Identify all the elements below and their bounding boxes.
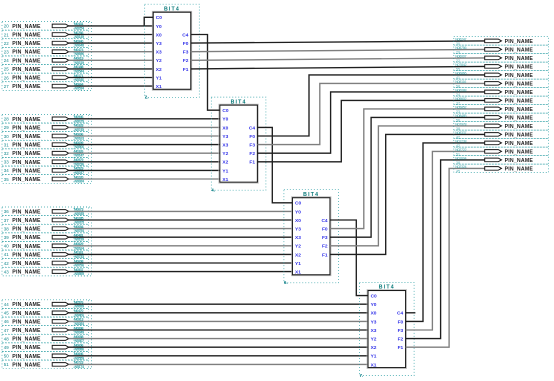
net label on wire of group 2 row 8 bbox=[74, 175, 85, 183]
svg-text:N02722: N02722 bbox=[455, 148, 466, 152]
svg-text:34: 34 bbox=[4, 168, 9, 173]
svg-text:PIN_NAME: PIN_NAME bbox=[12, 209, 41, 215]
svg-text:C0: C0 bbox=[222, 108, 228, 114]
net label on wire of group 4 row 7 bbox=[74, 352, 84, 360]
svg-text:F2: F2 bbox=[322, 244, 328, 250]
svg-text:PIN_NAME: PIN_NAME bbox=[12, 235, 41, 241]
svg-text:F1: F1 bbox=[322, 252, 328, 258]
svg-text:PIN_NAME: PIN_NAME bbox=[505, 73, 534, 79]
wire group 3 row 5 to U3 Y2 bbox=[68, 245, 292, 247]
output pin port PIN_NAME (bit 12) bbox=[454, 139, 549, 148]
input pin port PIN_NAME (group 3 row 2, pin 37) bbox=[2, 216, 89, 225]
wire U3.F1 to output pin 11 bbox=[330, 134, 485, 254]
svg-text:N06088: N06088 bbox=[455, 88, 466, 92]
wire group 1 row 6 to U1 X2 bbox=[68, 68, 153, 70]
wire U3.F2 to output pin 10 bbox=[330, 126, 485, 246]
selection box around net labels of group 2 bbox=[74, 114, 92, 183]
svg-text:25: 25 bbox=[4, 67, 9, 72]
wire group 1 row 4 to U1 X3 bbox=[68, 51, 153, 53]
wire group 1 row 3 to U1 Y3 bbox=[68, 42, 153, 44]
svg-text:BIT4: BIT4 bbox=[379, 285, 395, 291]
wire carry U2.C4 to U3.C0 bbox=[257, 127, 292, 202]
wire group 1 row 8 to U1 X1 bbox=[68, 85, 153, 87]
svg-text:N08337: N08337 bbox=[455, 131, 466, 135]
svg-text:27: 27 bbox=[4, 84, 9, 89]
svg-text:48: 48 bbox=[4, 336, 9, 341]
svg-text:X1: X1 bbox=[156, 84, 162, 90]
wire group 4 row 2 to U4 X0 bbox=[68, 312, 368, 314]
wire U1.F1 to output pin 3 bbox=[191, 66, 485, 69]
net label on wire of group 4 row 2 bbox=[74, 309, 84, 317]
input pin port PIN_NAME (group 2 row 7, pin 34) bbox=[2, 166, 89, 175]
svg-text:20: 20 bbox=[4, 24, 9, 29]
net label on wire of group 1 row 2 bbox=[74, 31, 84, 39]
input pin port PIN_NAME (group 1 row 7, pin 26) bbox=[2, 73, 89, 82]
svg-text:PIN_NAME: PIN_NAME bbox=[505, 132, 534, 138]
svg-text:F3: F3 bbox=[249, 143, 255, 149]
wire U4.F0 to output pin 12 bbox=[406, 143, 485, 322]
net label on wire of group 3 row 8 bbox=[74, 268, 84, 276]
net label on wire of output pin 11 bbox=[455, 131, 466, 140]
svg-text:X0: X0 bbox=[222, 125, 228, 131]
svg-text:43: 43 bbox=[4, 269, 9, 274]
wire group 3 row 7 to U3 Y1 bbox=[68, 262, 292, 264]
svg-text:Y0: Y0 bbox=[156, 24, 162, 30]
svg-text:PIN_NAME: PIN_NAME bbox=[505, 158, 534, 164]
svg-text:51: 51 bbox=[4, 362, 9, 367]
svg-text:PIN_NAME: PIN_NAME bbox=[12, 67, 41, 73]
net label on wire of group 3 row 5 bbox=[74, 242, 85, 250]
svg-text:PIN_NAME: PIN_NAME bbox=[505, 115, 534, 121]
svg-text:X3: X3 bbox=[156, 50, 162, 56]
svg-text:X1: X1 bbox=[295, 270, 301, 276]
svg-text:7.: 7. bbox=[360, 373, 364, 378]
svg-text:F2: F2 bbox=[183, 58, 189, 64]
svg-text:39: 39 bbox=[4, 235, 9, 240]
input pin port PIN_NAME (group 3 row 4, pin 39) bbox=[2, 233, 89, 242]
output pin port PIN_NAME (bit 2) bbox=[454, 54, 549, 63]
wire group 1 row 2 to U1 X0 bbox=[68, 34, 153, 36]
net label on wire of output pin 1 bbox=[455, 46, 466, 55]
net label on wire of output pin 5 bbox=[455, 80, 466, 89]
net label on wire of group 2 row 2 bbox=[74, 124, 84, 132]
svg-text:47: 47 bbox=[4, 328, 9, 333]
svg-text:X2: X2 bbox=[156, 67, 162, 73]
wire U4.F2 to output pin 14 bbox=[406, 160, 485, 339]
svg-text:49: 49 bbox=[4, 345, 9, 350]
input pin port PIN_NAME (group 2 row 8, pin 35) bbox=[2, 175, 89, 184]
wire U4.F3 to output pin 13 bbox=[406, 151, 485, 330]
svg-text:PIN_NAME: PIN_NAME bbox=[12, 50, 41, 56]
net label on wire of group 4 row 1 bbox=[74, 301, 84, 309]
svg-text:Y2: Y2 bbox=[371, 337, 377, 343]
svg-text:N06866: N06866 bbox=[455, 71, 466, 75]
svg-text:PIN_NAME: PIN_NAME bbox=[505, 90, 534, 96]
svg-text:X1: X1 bbox=[371, 362, 377, 368]
output pin port PIN_NAME (bit 3) bbox=[454, 62, 549, 71]
svg-text:F0: F0 bbox=[398, 319, 404, 325]
wire group 2 row 5 to U2 Y2 bbox=[68, 152, 219, 154]
svg-text:PIN_NAME: PIN_NAME bbox=[12, 362, 41, 368]
svg-text:45: 45 bbox=[456, 169, 460, 173]
svg-text:PIN_NAME: PIN_NAME bbox=[12, 76, 41, 82]
svg-text:N01604: N01604 bbox=[455, 156, 466, 160]
input pin port PIN_NAME (group 3 row 8, pin 43) bbox=[2, 267, 89, 276]
input pin port PIN_NAME (group 2 row 1, pin 28) bbox=[2, 114, 89, 123]
svg-text:30: 30 bbox=[4, 134, 9, 139]
svg-text:BIT4: BIT4 bbox=[164, 6, 180, 12]
output pin port PIN_NAME (bit 1) bbox=[454, 45, 549, 54]
wire group 2 row 8 to U2 X1 bbox=[68, 178, 219, 180]
svg-text:N02324: N02324 bbox=[455, 165, 466, 169]
svg-text:BIT4: BIT4 bbox=[303, 192, 319, 198]
output pin port PIN_NAME (bit 9) bbox=[454, 113, 549, 122]
net label on wire of group 3 row 3 bbox=[74, 225, 85, 233]
wire group 2 row 2 to U2 X0 bbox=[68, 126, 219, 128]
svg-text:N05852: N05852 bbox=[455, 105, 466, 109]
svg-text:X2: X2 bbox=[222, 160, 228, 166]
net label on wire of group 3 row 6 bbox=[74, 251, 84, 259]
svg-text:36: 36 bbox=[4, 209, 9, 214]
wire U2.F1 to output pin 7 bbox=[257, 100, 485, 161]
svg-text:X0: X0 bbox=[295, 218, 301, 224]
svg-text:PIN_NAME: PIN_NAME bbox=[12, 218, 41, 224]
svg-text:PIN_NAME: PIN_NAME bbox=[12, 58, 41, 64]
net label on wire of group 4 row 6 bbox=[74, 344, 84, 352]
svg-text:PIN_NAME: PIN_NAME bbox=[505, 39, 534, 45]
input pin port PIN_NAME (group 3 row 5, pin 40) bbox=[2, 241, 89, 250]
wire group 3 row 1 to U3 Y0 bbox=[68, 210, 292, 212]
wire group 4 row 7 to U4 Y1 bbox=[68, 355, 368, 357]
svg-text:44: 44 bbox=[4, 302, 9, 307]
net label on wire of output pin 0 bbox=[455, 37, 466, 46]
svg-text:C0: C0 bbox=[156, 15, 162, 21]
svg-text:6.: 6. bbox=[284, 280, 288, 285]
net label on wire of output pin 7 bbox=[455, 97, 466, 106]
svg-text:2.: 2. bbox=[145, 95, 149, 100]
wire group 4 row 8 to U4 X1 bbox=[68, 363, 368, 365]
net label on wire of group 2 row 4 bbox=[74, 141, 84, 149]
wire group 3 row 4 to U3 X3 bbox=[68, 236, 292, 238]
output pin port PIN_NAME (bit 6) bbox=[454, 88, 549, 97]
output pin port PIN_NAME (bit 5) bbox=[454, 79, 549, 88]
input pin port PIN_NAME (group 1 row 3, pin 22) bbox=[2, 39, 89, 48]
svg-text:PIN_NAME: PIN_NAME bbox=[505, 124, 534, 130]
wire U4.F1 to output pin 15 bbox=[406, 168, 485, 347]
net label on wire of output pin 8 bbox=[455, 105, 466, 114]
output pin port PIN_NAME (bit 0) bbox=[454, 37, 549, 46]
wire U2.F2 to output pin 6 bbox=[257, 92, 485, 153]
wire group 4 row 1 to U4 Y0 bbox=[68, 303, 368, 305]
output pin port PIN_NAME (bit 14) bbox=[454, 156, 549, 165]
svg-text:X3: X3 bbox=[371, 328, 377, 334]
net label on wire of output pin 9 bbox=[455, 114, 466, 123]
wire U4.C4 carry-out stub bbox=[406, 312, 416, 314]
wire U1.F0 to output pin 0 bbox=[191, 41, 485, 43]
svg-text:N09602: N09602 bbox=[455, 97, 466, 101]
svg-text:PIN_NAME: PIN_NAME bbox=[12, 227, 41, 233]
output pin port PIN_NAME (bit 10) bbox=[454, 122, 549, 131]
wire group 3 row 8 to U3 X1 bbox=[68, 271, 292, 273]
svg-text:PIN_NAME: PIN_NAME bbox=[12, 160, 41, 166]
wire group 4 row 5 to U4 Y2 bbox=[68, 338, 368, 340]
svg-text:N08116: N08116 bbox=[455, 80, 466, 84]
output pin port PIN_NAME (bit 15) bbox=[454, 164, 549, 173]
wire group 2 row 1 to U2 Y0 bbox=[68, 118, 219, 120]
input pin port PIN_NAME (group 3 row 3, pin 38) bbox=[2, 224, 89, 233]
svg-text:F2: F2 bbox=[398, 337, 404, 343]
svg-text:4.: 4. bbox=[211, 187, 215, 192]
input pin port PIN_NAME (group 1 row 5, pin 24) bbox=[2, 56, 89, 65]
svg-text:23: 23 bbox=[4, 50, 9, 55]
wire group 2 row 6 to U2 X2 bbox=[68, 161, 219, 163]
svg-text:Y1: Y1 bbox=[156, 75, 162, 81]
wire group 3 row 3 to U3 Y3 bbox=[68, 228, 292, 230]
input pin port PIN_NAME (group 1 row 6, pin 25) bbox=[2, 65, 89, 74]
svg-text:Y1: Y1 bbox=[371, 354, 377, 360]
svg-text:F3: F3 bbox=[183, 50, 189, 56]
net label on wire of output pin 15 bbox=[455, 165, 466, 174]
svg-text:N08485: N08485 bbox=[455, 114, 466, 118]
net label on wire of output pin 3 bbox=[455, 63, 466, 72]
wire U1.F2 to output pin 2 bbox=[191, 58, 485, 60]
net label on wire of group 1 row 6 bbox=[74, 65, 85, 73]
svg-text:F0: F0 bbox=[249, 134, 255, 140]
svg-text:X1: X1 bbox=[222, 177, 228, 183]
svg-text:PIN_NAME: PIN_NAME bbox=[12, 24, 41, 30]
net label on wire of group 2 row 6 bbox=[74, 158, 84, 166]
svg-text:PIN_NAME: PIN_NAME bbox=[12, 337, 41, 343]
svg-text:N01238: N01238 bbox=[455, 139, 466, 143]
wire U3.F3 to output pin 9 bbox=[330, 117, 485, 237]
svg-text:Y1: Y1 bbox=[295, 261, 301, 267]
svg-text:PIN_NAME: PIN_NAME bbox=[505, 107, 534, 113]
svg-text:PIN_NAME: PIN_NAME bbox=[505, 149, 534, 155]
net label on wire of group 1 row 8 bbox=[74, 82, 85, 90]
net label on wire of output pin 6 bbox=[455, 88, 466, 97]
input pin port PIN_NAME (group 3 row 6, pin 41) bbox=[2, 250, 89, 259]
net label on wire of output pin 14 bbox=[455, 156, 466, 165]
wire group 2 row 3 to U2 Y3 bbox=[68, 135, 219, 137]
svg-text:PIN_NAME: PIN_NAME bbox=[12, 302, 41, 308]
svg-text:22: 22 bbox=[4, 41, 9, 46]
wire group 4 row 4 to U4 X3 bbox=[68, 329, 368, 331]
svg-text:28: 28 bbox=[4, 117, 9, 122]
svg-text:PIN_NAME: PIN_NAME bbox=[12, 261, 41, 267]
svg-text:PIN_NAME: PIN_NAME bbox=[505, 98, 534, 104]
svg-text:N07978: N07978 bbox=[455, 122, 466, 126]
svg-text:PIN_NAME: PIN_NAME bbox=[12, 134, 41, 140]
net label on wire of output pin 2 bbox=[455, 54, 466, 63]
svg-text:41: 41 bbox=[4, 252, 9, 257]
svg-text:PIN_NAME: PIN_NAME bbox=[12, 143, 41, 149]
svg-text:N07842: N07842 bbox=[455, 63, 466, 67]
svg-text:PIN_NAME: PIN_NAME bbox=[505, 166, 534, 172]
svg-text:X0: X0 bbox=[371, 311, 377, 317]
wire group 3 row 2 to U3 X0 bbox=[68, 219, 292, 221]
output pin port PIN_NAME (bit 4) bbox=[454, 71, 549, 80]
svg-text:Y3: Y3 bbox=[156, 41, 162, 47]
input pin port PIN_NAME (group 4 row 1, pin 44) bbox=[2, 300, 89, 309]
wire U1.F3 to output pin 1 bbox=[191, 49, 485, 51]
net label on wire of group 3 row 7 bbox=[74, 259, 84, 267]
svg-text:C4: C4 bbox=[397, 311, 403, 317]
net label on wire of output pin 13 bbox=[455, 148, 466, 157]
wire group 3 row 6 to U3 X2 bbox=[68, 253, 292, 255]
input pin port PIN_NAME (group 4 row 7, pin 50) bbox=[2, 351, 89, 360]
svg-text:Y2: Y2 bbox=[222, 151, 228, 157]
svg-text:X2: X2 bbox=[295, 252, 301, 258]
svg-text:PIN_NAME: PIN_NAME bbox=[505, 47, 534, 53]
svg-text:X3: X3 bbox=[222, 143, 228, 149]
net label on wire of group 4 row 8 bbox=[74, 361, 85, 369]
svg-text:31: 31 bbox=[4, 142, 9, 147]
output pin port PIN_NAME (bit 8) bbox=[454, 105, 549, 114]
svg-text:Y2: Y2 bbox=[295, 244, 301, 250]
svg-text:PIN_NAME: PIN_NAME bbox=[12, 311, 41, 317]
svg-text:29: 29 bbox=[4, 125, 9, 130]
svg-text:PIN_NAME: PIN_NAME bbox=[505, 81, 534, 87]
svg-text:50: 50 bbox=[4, 354, 9, 359]
svg-text:Y3: Y3 bbox=[295, 227, 301, 233]
svg-text:PIN_NAME: PIN_NAME bbox=[12, 41, 41, 47]
svg-text:PIN_NAME: PIN_NAME bbox=[12, 117, 41, 123]
svg-text:32: 32 bbox=[4, 151, 9, 156]
net label on wire of group 4 row 4 bbox=[74, 326, 84, 334]
input pin port PIN_NAME (group 2 row 3, pin 30) bbox=[2, 132, 89, 141]
svg-text:PIN_NAME: PIN_NAME bbox=[12, 328, 41, 334]
wire group 4 row 6 to U4 X2 bbox=[68, 346, 368, 348]
svg-text:PIN_NAME: PIN_NAME bbox=[12, 270, 41, 276]
svg-text:PIN_NAME: PIN_NAME bbox=[12, 177, 41, 183]
svg-text:C4: C4 bbox=[249, 125, 255, 131]
svg-text:PIN_NAME: PIN_NAME bbox=[12, 168, 41, 174]
net label on wire of output pin 10 bbox=[455, 122, 466, 131]
net label on wire of group 4 row 3 bbox=[74, 318, 85, 326]
svg-text:42: 42 bbox=[4, 261, 9, 266]
svg-text:C4: C4 bbox=[321, 218, 327, 224]
svg-text:Y3: Y3 bbox=[222, 134, 228, 140]
svg-text:F3: F3 bbox=[398, 328, 404, 334]
net label on wire of output pin 4 bbox=[455, 71, 466, 80]
input pin port PIN_NAME (group 4 row 8, pin 51) bbox=[2, 360, 89, 369]
svg-text:Y0: Y0 bbox=[371, 302, 377, 308]
net label on wire of group 1 row 5 bbox=[74, 57, 84, 65]
net label on wire of group 2 row 7 bbox=[74, 167, 84, 175]
svg-text:F1: F1 bbox=[249, 160, 255, 166]
svg-text:24: 24 bbox=[4, 58, 9, 63]
wire group 4 row 3 to U4 Y3 bbox=[68, 320, 368, 322]
input pin port PIN_NAME (group 4 row 5, pin 48) bbox=[2, 334, 89, 343]
svg-text:F1: F1 bbox=[183, 67, 189, 73]
input pin port PIN_NAME (group 2 row 4, pin 31) bbox=[2, 140, 89, 149]
svg-text:45: 45 bbox=[4, 311, 9, 316]
IC U3 BIT4 (4-bit adder slice) bbox=[284, 190, 339, 283]
net label on wire of group 4 row 5 bbox=[74, 335, 84, 343]
svg-text:38: 38 bbox=[4, 226, 9, 231]
svg-text:N06007: N06007 bbox=[455, 54, 466, 58]
svg-text:35: 35 bbox=[4, 177, 9, 182]
selection box around net labels of group 3 bbox=[74, 207, 92, 276]
wire group 1 row 5 to U1 Y2 bbox=[68, 59, 153, 61]
svg-text:26: 26 bbox=[4, 75, 9, 80]
IC U4 BIT4 (4-bit adder slice) bbox=[360, 283, 415, 376]
selection box around net labels of group 1 bbox=[74, 22, 92, 91]
svg-text:PIN_NAME: PIN_NAME bbox=[12, 319, 41, 325]
input pin port PIN_NAME (group 3 row 7, pin 42) bbox=[2, 259, 89, 268]
wire U2.F3 to output pin 5 bbox=[257, 83, 485, 144]
net label on wire of group 3 row 4 bbox=[74, 234, 84, 242]
svg-text:N08756: N08756 bbox=[455, 46, 466, 50]
wire group 1 row 7 to U1 Y1 bbox=[68, 77, 153, 79]
svg-text:Y2: Y2 bbox=[156, 58, 162, 64]
output pin port PIN_NAME (bit 13) bbox=[454, 147, 549, 156]
input pin port PIN_NAME (group 2 row 5, pin 32) bbox=[2, 149, 89, 158]
svg-text:PIN_NAME: PIN_NAME bbox=[12, 244, 41, 250]
input pin port PIN_NAME (group 1 row 1, pin 20) bbox=[2, 22, 89, 31]
wire carry U1.C4 to U2.C0 bbox=[191, 35, 220, 111]
svg-text:37: 37 bbox=[4, 218, 9, 223]
input pin port PIN_NAME (group 2 row 2, pin 29) bbox=[2, 123, 89, 132]
net label on wire of group 1 row 3 bbox=[74, 39, 84, 47]
wire carry U3.C4 to U4.C0 bbox=[330, 220, 368, 296]
svg-text:C0: C0 bbox=[295, 201, 301, 207]
net label on wire of group 2 row 3 bbox=[74, 132, 84, 140]
input pin port PIN_NAME (group 1 row 4, pin 23) bbox=[2, 47, 89, 56]
net label on wire of group 3 row 1 bbox=[74, 208, 84, 216]
svg-text:PIN_NAME: PIN_NAME bbox=[505, 64, 534, 70]
net label on wire of group 3 row 2 bbox=[74, 216, 84, 224]
input pin port PIN_NAME (group 1 row 8, pin 27) bbox=[2, 82, 89, 91]
svg-text:Y1: Y1 bbox=[222, 168, 228, 174]
wire U3.F0 to output pin 8 bbox=[330, 109, 485, 229]
input pin port PIN_NAME (group 4 row 6, pin 49) bbox=[2, 343, 89, 352]
wire group 1 row 1 to U1 Y0 bbox=[68, 25, 153, 27]
svg-text:PIN_NAME: PIN_NAME bbox=[12, 354, 41, 360]
input pin port PIN_NAME (group 2 row 6, pin 33) bbox=[2, 157, 89, 166]
svg-text:46: 46 bbox=[4, 319, 9, 324]
svg-text:21: 21 bbox=[4, 32, 9, 37]
svg-text:PIN_NAME: PIN_NAME bbox=[505, 141, 534, 147]
svg-text:PIN_NAME: PIN_NAME bbox=[12, 33, 41, 39]
svg-text:Y3: Y3 bbox=[371, 319, 377, 325]
IC U1 BIT4 (4-bit adder slice) bbox=[145, 4, 200, 97]
net label on wire of group 1 row 4 bbox=[74, 48, 84, 56]
svg-text:PIN_NAME: PIN_NAME bbox=[505, 56, 534, 62]
output pin port PIN_NAME (bit 11) bbox=[454, 130, 549, 139]
wire carry-in hookup to U1 C0 bbox=[144, 17, 153, 26]
input pin port PIN_NAME (group 1 row 2, pin 21) bbox=[2, 30, 89, 39]
svg-text:BIT4: BIT4 bbox=[231, 99, 247, 105]
svg-text:X2: X2 bbox=[371, 345, 377, 351]
svg-text:N06247: N06247 bbox=[455, 37, 466, 41]
svg-text:40: 40 bbox=[4, 244, 9, 249]
svg-text:PIN_NAME: PIN_NAME bbox=[12, 252, 41, 258]
svg-text:Y0: Y0 bbox=[222, 117, 228, 123]
svg-text:C4: C4 bbox=[182, 32, 188, 38]
net label on wire of group 2 row 5 bbox=[74, 150, 84, 158]
svg-text:F0: F0 bbox=[322, 227, 328, 233]
selection box around net labels of group 4 bbox=[74, 300, 92, 369]
input pin port PIN_NAME (group 3 row 1, pin 36) bbox=[2, 207, 89, 216]
output pin port PIN_NAME (bit 7) bbox=[454, 96, 549, 105]
wire group 2 row 7 to U2 Y1 bbox=[68, 169, 219, 171]
svg-text:PIN_NAME: PIN_NAME bbox=[12, 345, 41, 351]
svg-text:F3: F3 bbox=[322, 235, 328, 241]
input pin port PIN_NAME (group 4 row 4, pin 47) bbox=[2, 326, 89, 335]
svg-text:Y0: Y0 bbox=[295, 209, 301, 215]
wire U2.F0 to output pin 4 bbox=[257, 75, 485, 136]
